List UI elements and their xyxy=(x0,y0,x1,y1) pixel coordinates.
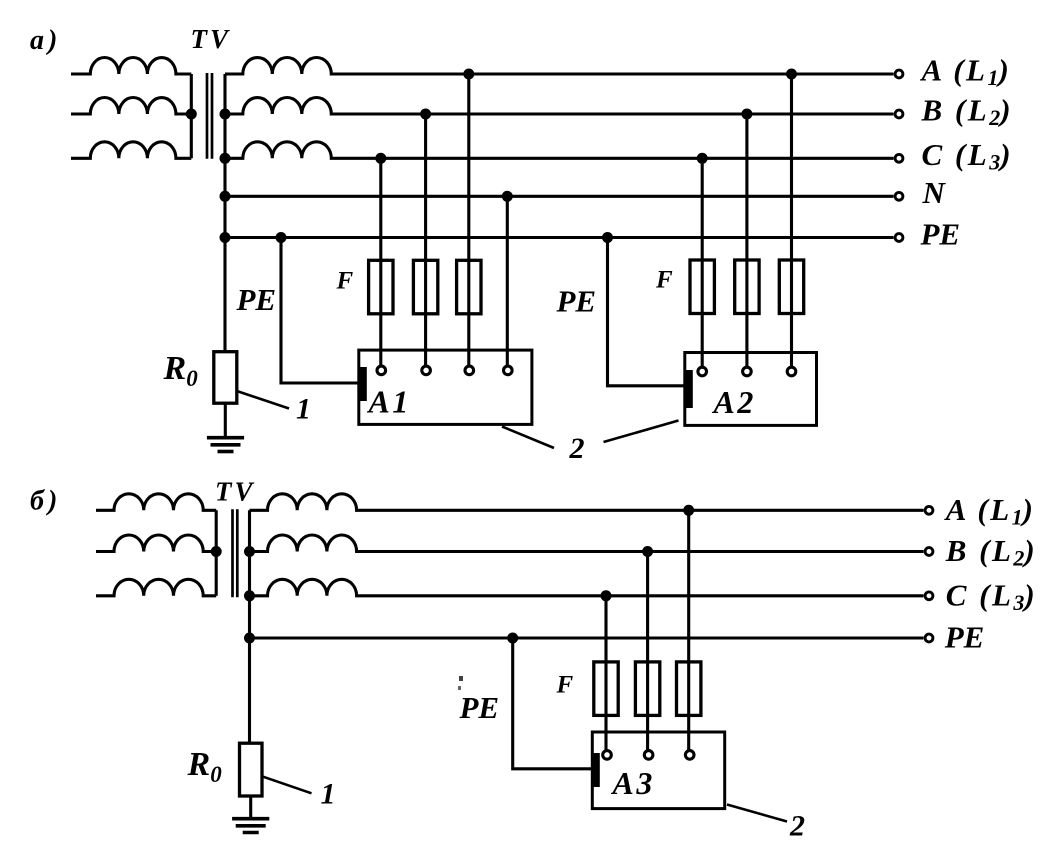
svg-text:a): a) xyxy=(30,25,61,56)
svg-text:2: 2 xyxy=(789,810,805,843)
svg-text:A3: A3 xyxy=(611,765,655,801)
svg-text:б): б) xyxy=(30,486,61,517)
svg-text:A (L1): A (L1) xyxy=(920,53,1012,91)
svg-text:PE: PE xyxy=(920,216,961,251)
svg-text:PE: PE xyxy=(236,282,277,317)
svg-text:F: F xyxy=(556,672,574,699)
svg-text:PE: PE xyxy=(459,690,500,725)
svg-text:F: F xyxy=(336,268,354,295)
svg-text:N: N xyxy=(922,175,947,210)
svg-text:A1: A1 xyxy=(367,384,411,420)
svg-text:1: 1 xyxy=(321,778,336,811)
svg-text:C (L3): C (L3) xyxy=(946,577,1038,615)
svg-text:TV: TV xyxy=(191,24,232,54)
svg-text:2: 2 xyxy=(569,432,585,465)
svg-text:TV: TV xyxy=(215,477,256,507)
svg-text:C (L3): C (L3) xyxy=(922,137,1014,175)
svg-text:PE: PE xyxy=(556,284,597,319)
svg-text:PE: PE xyxy=(944,620,985,655)
svg-text:1: 1 xyxy=(296,393,311,426)
svg-text:A (L1): A (L1) xyxy=(944,492,1036,530)
svg-text:F: F xyxy=(655,267,673,294)
svg-text:A2: A2 xyxy=(712,384,756,420)
